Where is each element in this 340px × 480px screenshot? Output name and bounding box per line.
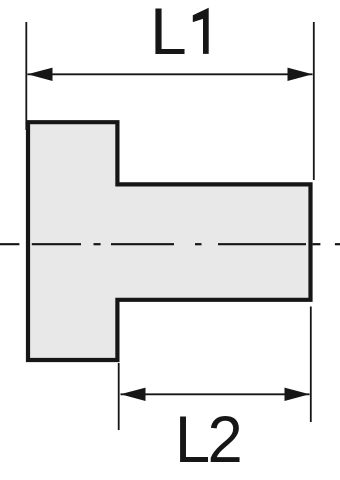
dimension L1 extension line left: [25, 22, 27, 130]
dimension L2 line: [121, 393, 310, 395]
svg-text:L: L: [150, 0, 187, 68]
centerline: [0, 243, 340, 245]
dimension L2 extension line left: [118, 363, 120, 430]
part profile (T-shaped fitting cross-section): [28, 122, 311, 360]
dimension L1 line: [28, 73, 313, 75]
dimension L2 arrowhead left: [121, 388, 146, 401]
svg-text:L2: L2: [175, 402, 240, 476]
dimension L2 arrowhead right: [285, 388, 310, 401]
dimension L1 extension line right: [313, 22, 315, 180]
dimension L1 arrowhead right: [288, 68, 313, 81]
label L1: [150, 0, 209, 68]
dimension L2 extension line right: [310, 307, 312, 423]
dimension L1 arrowhead left: [28, 68, 53, 81]
